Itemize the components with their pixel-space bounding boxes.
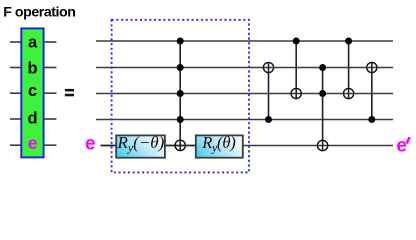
wire stub e right xyxy=(44,144,56,146)
svg-text:e: e xyxy=(28,133,38,153)
wire stub e left xyxy=(10,144,21,146)
wire stub b right xyxy=(44,67,56,69)
svg-text:c: c xyxy=(28,82,37,100)
wire stub a right xyxy=(44,41,56,43)
prime mark of e' xyxy=(407,137,410,143)
CNOT target on wire e xyxy=(317,140,327,150)
wire stub a left xyxy=(10,41,21,43)
wire 1 (a) xyxy=(96,40,393,42)
svg-text:e: e xyxy=(396,136,407,157)
Toffoli bc->e vertical wire xyxy=(322,68,324,151)
wire stub b left xyxy=(10,67,21,69)
control dot on wire a xyxy=(293,38,300,45)
svg-text:F operation: F operation xyxy=(3,4,75,20)
control dot on wire c xyxy=(177,90,184,97)
svg-text:Ry(−θ): Ry(−θ) xyxy=(116,133,164,155)
control dot on wire a xyxy=(177,38,184,45)
gate Ry(-theta) xyxy=(116,133,165,158)
CNOT target on wire b xyxy=(263,62,273,72)
control dot on wire c xyxy=(319,90,326,97)
CNOT target on wire b xyxy=(367,62,377,72)
gate Ry(theta) xyxy=(196,133,243,158)
equals sign xyxy=(65,89,74,92)
CNOT d->b vertical wire (second) xyxy=(371,62,373,119)
CNOT target on wire e xyxy=(175,140,185,150)
wire 5 (e) right segment xyxy=(243,145,393,147)
multi-controlled gate vertical wire xyxy=(179,41,181,151)
CNOT a->c vertical wire xyxy=(295,41,297,99)
wire stub d left xyxy=(10,118,21,120)
svg-text:d: d xyxy=(28,110,38,128)
wire stub c left xyxy=(10,92,21,94)
control dot on wire a xyxy=(345,38,352,45)
wire stub c right xyxy=(44,92,56,94)
wire 5 (e) left segment xyxy=(101,145,117,147)
CNOT d->b vertical wire xyxy=(268,62,270,119)
control dot on wire d xyxy=(368,116,375,123)
svg-text:b: b xyxy=(28,60,38,78)
svg-text:Ry(θ): Ry(θ) xyxy=(201,133,235,155)
wire 5 (e) middle segment xyxy=(165,145,196,147)
control dot on wire d xyxy=(177,116,184,123)
control dot on wire d xyxy=(265,116,272,123)
wire stub d right xyxy=(44,118,56,120)
svg-text:e: e xyxy=(85,134,96,155)
F operation box xyxy=(21,28,43,157)
CNOT target on wire c xyxy=(291,88,301,98)
wire 3 (c) xyxy=(96,93,393,95)
svg-text:a: a xyxy=(28,34,38,52)
wire 4 (d) xyxy=(96,119,393,121)
control dot on wire b xyxy=(319,64,326,71)
wire 2 (b) xyxy=(96,67,393,69)
control dot on wire b xyxy=(177,64,184,71)
CNOT target on wire c xyxy=(344,88,354,98)
CNOT a->c vertical wire (second) xyxy=(348,41,350,99)
dashed enclosure box xyxy=(112,20,249,173)
